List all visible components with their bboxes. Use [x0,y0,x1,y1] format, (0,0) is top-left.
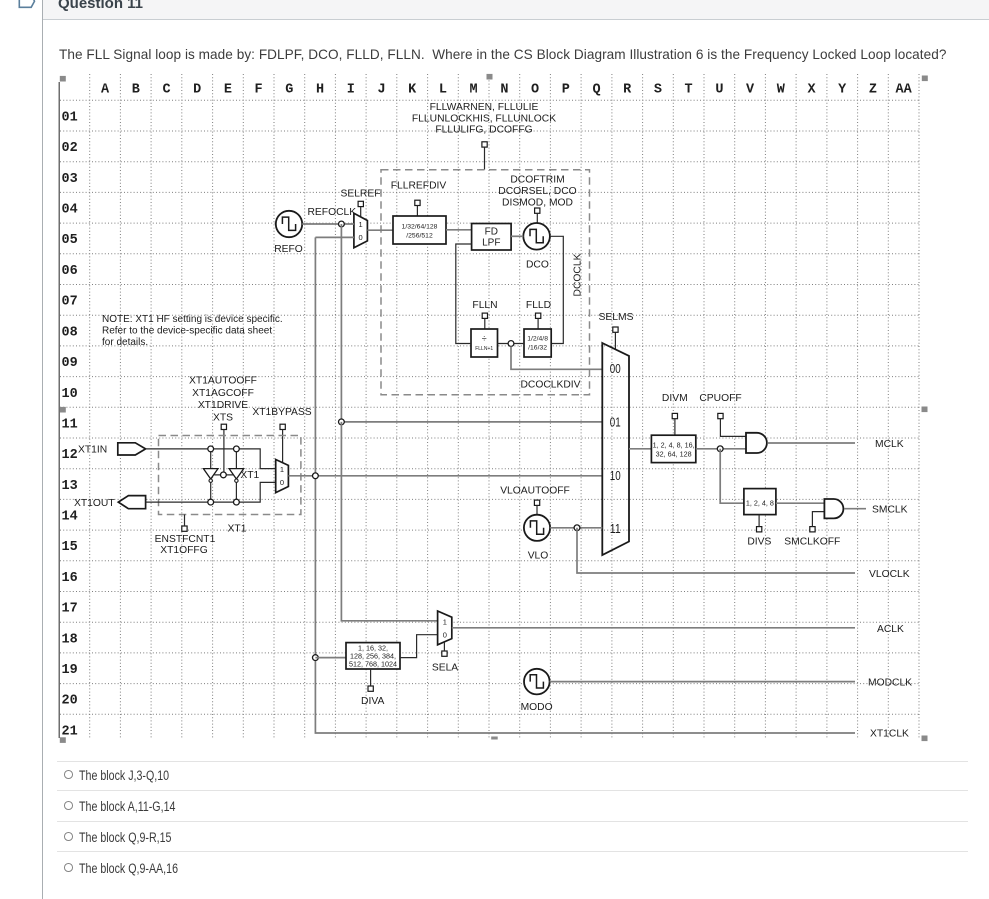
svg-text:XT1AGCOFF: XT1AGCOFF [192,388,254,399]
svg-text:K: K [408,83,417,98]
svg-text:FLLUNLOCKHIS, FLLUNLOCK: FLLUNLOCKHIS, FLLUNLOCK [412,113,556,124]
FLLREFDIV terminal [415,200,420,216]
REFO oscillator [276,211,302,237]
svg-text:Q: Q [592,83,600,98]
svg-text:XT1CLK: XT1CLK [870,728,909,739]
svg-text:XT1BYPASS: XT1BYPASS [252,407,311,418]
svg-text:1/32/64/128: 1/32/64/128 [402,224,438,231]
svg-text:XTS: XTS [213,413,233,424]
svg-text:J: J [377,83,385,98]
divider DIVS [744,489,776,515]
svg-text:G: G [285,83,293,98]
svg-text:XT1DRIVE: XT1DRIVE [198,400,248,411]
svg-text:32, 64, 128: 32, 64, 128 [656,450,692,459]
svg-text:W: W [777,83,786,98]
wire MCLK out [767,442,855,444]
svg-text:06: 06 [62,264,78,279]
svg-text:P: P [562,83,570,98]
DCO control terminal [535,208,540,223]
svg-text:A: A [101,83,110,98]
wire DCOCLKDIV to SELMS 00 [511,346,602,369]
svg-text:FLLN: FLLN [472,300,497,311]
svg-text:/16/32: /16/32 [528,345,547,352]
wire DIVA to SELA 0 [400,635,438,658]
wire DIVS to AND gate [776,502,825,504]
svg-text:M: M [470,83,478,98]
wire XT1CLK bus vertical [315,237,855,733]
svg-text:O: O [531,83,539,98]
svg-text:XT1: XT1 [240,470,259,481]
mux XT1BYPASS [276,460,289,493]
svg-text:R: R [623,83,632,98]
node REFOCLK branch [339,221,345,227]
svg-text:0: 0 [359,233,363,242]
nodes XT1OUT line [208,499,214,505]
node REFOCLK row11 [339,419,345,425]
svg-text:MCLK: MCLK [875,439,904,450]
MODO oscillator [524,669,550,695]
svg-text:LPF: LPF [482,238,500,249]
svg-text:02: 02 [62,141,78,156]
wire XT1CLK to DIVA [315,657,346,659]
DIVA terminal [368,669,373,691]
svg-text:VLOAUTOOFF: VLOAUTOOFF [500,485,570,496]
wire XT1IN to mux1 [146,449,276,469]
FLLD terminal [536,313,541,329]
svg-text:MODCLK: MODCLK [868,677,912,688]
wire FLLN feedback to FD LPF [456,244,472,344]
labels DIVS SMCLKOFF [747,536,840,547]
DIVS terminal [757,515,762,532]
svg-text:09: 09 [62,356,78,371]
svg-text:12: 12 [62,448,78,463]
svg-text:DISMOD, MOD: DISMOD, MOD [502,197,573,208]
svg-text:01: 01 [610,416,621,430]
wire FD LPF to DCO [511,235,523,237]
svg-text:Refer to the device-specific d: Refer to the device-specific data sheet [102,325,272,336]
svg-text:08: 08 [62,325,78,340]
FLL status labels FLLWARNEN [412,102,556,136]
divider FLLREFDIV [393,216,446,244]
svg-text:XT1OUT: XT1OUT [74,498,115,509]
FLL status terminal [482,142,487,170]
svg-text:SELMS: SELMS [599,312,634,323]
SELA terminal [442,642,447,656]
wire FLLD to FLLN [498,343,525,345]
svg-text:DIVA: DIVA [361,696,384,707]
svg-text:FD: FD [485,227,498,238]
svg-text:FLLN+1: FLLN+1 [475,346,493,352]
labels ENSTFCNT1 XT1OFFG [155,534,216,556]
svg-text:H: H [316,83,324,98]
svg-text:VLOCLK: VLOCLK [869,569,910,580]
divider FLLN [471,329,498,357]
mux SELA [438,611,452,645]
inverter amp 2 [229,449,244,502]
svg-text:XT1IN: XT1IN [78,445,107,456]
wire FLLREFDIV to FD LPF [446,229,472,231]
wire VLO to SELMS 11 [550,527,602,529]
svg-text:17: 17 [62,602,78,617]
svg-text:SMCLK: SMCLK [872,504,908,515]
svg-text:10: 10 [610,469,621,483]
svg-text:16: 16 [62,571,78,586]
VLO oscillator [524,515,550,541]
svg-text:1/2/4/8: 1/2/4/8 [527,336,548,343]
XTS terminal [221,424,226,471]
XT1BYPASS terminal [280,424,285,463]
wire REFOCLK bus down [340,224,342,422]
SMCLKOFF terminal [810,512,825,532]
wire SMCLK out [844,508,866,510]
svg-text:1, 2, 4, 8, 16,: 1, 2, 4, 8, 16, [653,440,695,449]
divider DIVM [651,435,695,462]
svg-text:MODO: MODO [521,702,553,713]
svg-text:04: 04 [62,203,78,218]
wire VLO to VLOCLK [577,528,855,573]
svg-text:FLLD: FLLD [526,300,551,311]
mux SELMS [602,343,629,555]
svg-text:20: 20 [62,694,78,709]
svg-text:N: N [500,83,508,98]
grid dotted lines [60,74,919,740]
svg-text:ENSTFCNT1: ENSTFCNT1 [155,534,216,545]
svg-text:SELREF: SELREF [340,188,380,199]
selection handles [60,74,928,743]
svg-text:DIVM: DIVM [662,393,688,404]
svg-text:19: 19 [62,663,78,678]
wire SELMS out to DIVM [629,448,651,450]
pin XT1IN [118,443,146,455]
node XT1CLK to DIVA [313,655,319,661]
node VLO [574,525,580,531]
svg-text:S: S [654,83,662,98]
wire XT1OUT to mux0 [146,482,276,502]
svg-text:DCO: DCO [526,259,549,270]
svg-text:REFOCLK: REFOCLK [308,207,357,218]
svg-text:B: B [132,83,140,98]
DIVM terminal [672,413,677,435]
svg-text:Z: Z [869,83,877,98]
column header labels A-AA [101,83,913,98]
svg-text:11: 11 [610,522,621,536]
svg-text:03: 03 [62,172,78,187]
svg-text:DCOCLK: DCOCLK [573,253,584,296]
svg-text:11: 11 [62,417,78,432]
svg-text:XT1: XT1 [228,524,247,535]
wire ACLK out [452,627,855,629]
svg-text:I: I [347,83,355,98]
nodes XT1IN line [208,446,214,452]
svg-text:DCOCLKDIV: DCOCLKDIV [520,379,580,390]
svg-text:÷: ÷ [482,334,487,344]
row header labels 01-21 [62,110,78,739]
svg-text:V: V [746,83,755,98]
svg-text:DIVS: DIVS [747,536,771,547]
wire REFOCLK to SELMS 01 [341,421,602,423]
node XT1CLK [313,473,319,479]
svg-text:REFO: REFO [274,244,303,255]
wire DCO out down to FLLD [550,236,563,343]
svg-text:18: 18 [62,632,78,647]
svg-text:1: 1 [359,220,363,229]
svg-text:0: 0 [280,478,284,487]
svg-text:07: 07 [62,295,78,310]
svg-text:1: 1 [443,618,447,627]
labels DIVM CPUOFF [662,393,742,404]
svg-text:14: 14 [62,510,78,525]
svg-text:512, 768, 1024: 512, 768, 1024 [349,660,397,669]
svg-text:XT1AUTOOFF: XT1AUTOOFF [189,375,257,386]
DCO oscillator [523,223,550,250]
svg-text:C: C [162,83,170,98]
wire REFO to mux1 [302,223,354,225]
wire MODCLK out [550,681,855,683]
svg-text:DCOFTRIM: DCOFTRIM [510,175,564,186]
svg-text:15: 15 [62,540,78,555]
wire REFOCLK down to SELA 1 [341,422,437,621]
svg-text:FLLREFDIV: FLLREFDIV [391,181,447,192]
pin XT1OUT [118,496,145,509]
CPUOFF terminal [718,413,746,436]
wire mux out to FLLREFDIV [367,229,393,231]
SELMS terminal [613,327,618,350]
svg-text:FLLWARNEN, FLLULIE: FLLWARNEN, FLLULIE [430,102,539,113]
labels DCOFTRIM DCORSEL DCO DISMOD MOD [498,175,576,209]
svg-text:for details.: for details. [102,337,148,348]
wire node to DIVS [720,449,744,503]
flag icon [0,0,60,20]
svg-text:ACLK: ACLK [877,624,904,635]
svg-text:D: D [193,83,201,98]
svg-text:13: 13 [62,479,78,494]
AND gate SMCLK [824,499,843,518]
svg-text:FLLULIFG, DCOFFG: FLLULIFG, DCOFFG [435,125,532,136]
svg-text:X: X [807,83,816,98]
wire mux0 input from XT1CLK bus [315,236,354,238]
svg-text:E: E [224,83,232,98]
svg-text:/256/512: /256/512 [406,233,433,240]
wire XT1 mux out to SELMS 10 [288,475,602,477]
svg-text:01: 01 [62,110,78,125]
mux SELREF (REFOCLK/XT1CLK) [354,213,368,247]
wire DIVM to AND gate [696,448,746,450]
block FD LPF [472,224,512,251]
XT1 dashed box [159,436,301,515]
svg-text:Y: Y [838,83,847,98]
note text [102,314,283,348]
FLLN terminal [482,313,487,329]
node XTS [221,472,227,478]
svg-text:21: 21 [62,724,78,739]
svg-text:1, 2, 4, 8: 1, 2, 4, 8 [746,499,774,508]
svg-text:CPUOFF: CPUOFF [699,393,741,404]
svg-text:00: 00 [610,362,621,376]
svg-text:SMCLKOFF: SMCLKOFF [784,536,840,547]
node MCLK branch [717,446,723,452]
VLOAUTOOFF terminal [534,500,539,515]
grid left border line [58,82,60,738]
XT1 control labels [189,375,312,423]
svg-text:T: T [685,83,693,98]
divider FLLD [524,329,551,357]
svg-text:U: U [715,83,723,98]
XTS select crossbar [214,474,233,476]
svg-text:L: L [439,83,447,98]
svg-text:SELA: SELA [432,662,458,673]
node DCOCLKDIV [508,341,514,347]
svg-text:05: 05 [62,233,78,248]
AND gate MCLK [746,433,767,453]
svg-text:DCORSEL, DCO: DCORSEL, DCO [498,186,576,197]
FLL dashed box [381,170,590,395]
ENSTFCNT1 terminal [182,515,187,532]
svg-text:F: F [255,83,263,98]
svg-text:0: 0 [443,630,447,639]
svg-text:AA: AA [895,83,912,98]
svg-text:XT1OFFG: XT1OFFG [160,545,207,556]
svg-text:1: 1 [280,465,284,474]
svg-text:10: 10 [62,387,78,402]
inverter amp 1 [203,449,218,502]
SELREF terminal [358,201,363,217]
divider DIVA [346,643,400,669]
svg-text:VLO: VLO [528,550,549,561]
svg-text:NOTE: XT1 HF setting is device: NOTE: XT1 HF setting is device specific. [102,314,283,325]
